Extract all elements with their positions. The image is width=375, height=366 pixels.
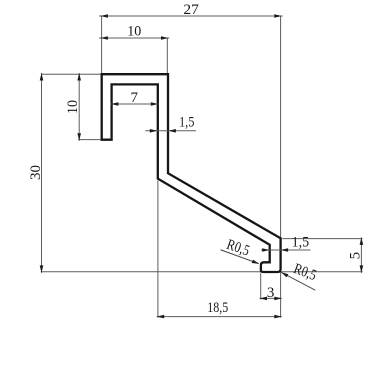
svg-text:30: 30 bbox=[28, 165, 44, 180]
extension line at U leg bottom (for 10 vert) bbox=[78, 139, 112, 141]
dimension 27 (top) bbox=[99, 2, 283, 18]
svg-text:1,5: 1,5 bbox=[292, 234, 310, 250]
dimension 7 (inner width of U) bbox=[111, 90, 159, 106]
dimension 3 (foot width) bbox=[260, 285, 282, 301]
profile outline bbox=[102, 74, 281, 272]
extension line at foot top right (for 5) bbox=[282, 238, 362, 240]
extension line bottom horizontal (for 30 and 5) bbox=[41, 271, 363, 273]
dimension 10 (left leg height) bbox=[65, 73, 81, 141]
svg-text:18,5: 18,5 bbox=[207, 300, 228, 316]
extension line right overall (for 27, 3, 18.5) bbox=[280, 16, 282, 318]
leader R0,5 (bottom right fillet of foot) bbox=[281, 261, 318, 290]
svg-text:5: 5 bbox=[348, 252, 364, 260]
dimension 10 (top of U) bbox=[99, 24, 169, 40]
dimension 1,5 (wall thickness, mid) bbox=[145, 115, 196, 133]
svg-text:1,5: 1,5 bbox=[179, 115, 195, 131]
extension line top left horizontal (for 30 and 10 vert) bbox=[41, 73, 105, 75]
dimension 30 (left overall height) bbox=[28, 73, 44, 273]
svg-text:3: 3 bbox=[267, 285, 275, 301]
svg-text:27: 27 bbox=[183, 2, 199, 18]
leader R0,5 (step fillet, upper left of foot) bbox=[221, 237, 260, 264]
extension line left of U (for 27 and 10 top) bbox=[101, 16, 103, 74]
dimension 1,5 (foot top thickness) bbox=[261, 234, 311, 252]
svg-text:10: 10 bbox=[65, 100, 81, 114]
extension line right of U top (for 10 top) bbox=[166, 38, 168, 74]
dimension 5 (foot height, right) bbox=[348, 237, 364, 273]
extension line from inner bend down (for 18.5) bbox=[157, 181, 159, 318]
dimension 18,5 (bottom) bbox=[157, 300, 282, 318]
svg-text:10: 10 bbox=[127, 24, 141, 40]
svg-text:7: 7 bbox=[130, 90, 138, 106]
extension line left of foot (for 3) bbox=[260, 273, 262, 299]
